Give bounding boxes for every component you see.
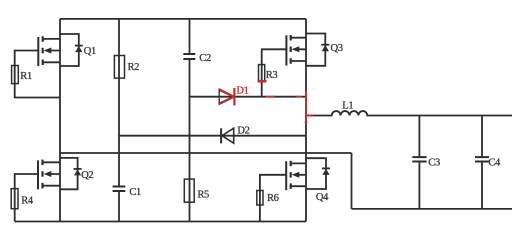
- wire red highlight right bus segment: [305, 91, 307, 121]
- resistor R4: [11, 189, 34, 209]
- wire red highlight R3 box bottom: [258, 80, 267, 83]
- svg-text:C2: C2: [199, 53, 211, 64]
- resistor R6: [257, 191, 279, 206]
- wire D1 row: [190, 96, 307, 98]
- svg-text:R4: R4: [21, 195, 34, 206]
- svg-text:L1: L1: [342, 100, 353, 111]
- wire C2/R5 branch: [189, 19, 191, 222]
- capacitor C4: [475, 116, 501, 209]
- wire Q2 gate to R4: [15, 174, 38, 222]
- wire Q3 gate to R3: [262, 49, 287, 96]
- wire mid phase node: [60, 152, 352, 154]
- wire output bottom rail: [352, 208, 513, 210]
- capacitor C2: [183, 53, 211, 64]
- diode D1: [219, 86, 249, 106]
- svg-text:D1: D1: [236, 86, 248, 97]
- transistor Q2: [38, 158, 93, 190]
- wire Q4 gate to R6: [260, 175, 286, 222]
- wire red highlight L1 row start: [306, 115, 313, 117]
- wire red highlight D1 row segment B: [296, 96, 302, 98]
- svg-text:R6: R6: [267, 193, 279, 204]
- svg-text:Q4: Q4: [316, 192, 329, 203]
- diode D2: [221, 126, 250, 144]
- capacitor C1: [113, 187, 141, 199]
- svg-text:Q1: Q1: [84, 46, 96, 57]
- svg-text:C1: C1: [129, 187, 141, 198]
- svg-text:C3: C3: [428, 158, 440, 169]
- transistor Q3: [286, 34, 342, 66]
- svg-text:R3: R3: [266, 70, 278, 81]
- wire left bus: [59, 19, 61, 222]
- svg-text:R5: R5: [197, 190, 209, 201]
- resistor R5: [184, 179, 209, 202]
- transistor Q1: [38, 34, 96, 66]
- wire D2 row: [119, 135, 306, 137]
- node red nub below L1 junction: [305, 121, 308, 123]
- resistor R1: [12, 66, 32, 84]
- svg-text:R2: R2: [128, 62, 140, 73]
- wire red highlight D1 row segment A: [266, 96, 276, 98]
- resistor R2: [114, 56, 139, 79]
- svg-text:Q2: Q2: [81, 170, 93, 181]
- wire R2/C1 branch: [118, 19, 120, 222]
- transistor Q4: [286, 158, 330, 203]
- wire Q1 gate to R1: [15, 51, 60, 98]
- svg-text:C4: C4: [488, 158, 501, 169]
- svg-text:D2: D2: [237, 126, 249, 137]
- svg-text:Q3: Q3: [331, 43, 343, 54]
- resistor R3: [259, 65, 278, 82]
- svg-text:R1: R1: [20, 71, 32, 82]
- wire output drop: [351, 153, 353, 209]
- wire top rail: [60, 18, 306, 20]
- capacitor C3: [412, 116, 440, 209]
- wire right bus: [305, 19, 307, 222]
- inductor L1: [306, 100, 512, 115]
- wire bottom rail: [15, 221, 306, 223]
